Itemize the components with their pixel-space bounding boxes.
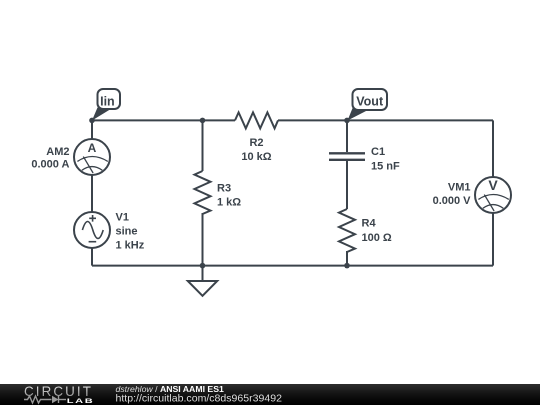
- footer bar: [0, 384, 540, 405]
- label R3: [217, 183, 241, 209]
- wire ground stub: [202, 266, 204, 281]
- junction node R3 top: [200, 118, 206, 124]
- svg-text:Iin: Iin: [100, 94, 115, 108]
- svg-text:0.000 A: 0.000 A: [31, 159, 69, 171]
- wire top left: [92, 119, 235, 121]
- svg-text:V: V: [488, 177, 498, 193]
- junction node Vout: [344, 118, 350, 124]
- node Iin flag: [92, 89, 120, 121]
- junction node R4 bottom: [344, 263, 350, 269]
- svg-text:1 kΩ: 1 kΩ: [217, 197, 241, 209]
- node Vout flag: [348, 89, 388, 121]
- capacitor C1: [329, 153, 365, 160]
- svg-text:10 kΩ: 10 kΩ: [241, 151, 271, 163]
- svg-text:100 Ω: 100 Ω: [362, 232, 392, 244]
- wire C1 top: [346, 120, 348, 152]
- svg-text:R3: R3: [217, 183, 231, 195]
- label AM2: [31, 146, 69, 171]
- wire left lower: [91, 248, 93, 266]
- resistor R2: [235, 112, 278, 128]
- label R4: [362, 218, 392, 244]
- wire bottom: [92, 265, 493, 267]
- svg-text:AM2: AM2: [46, 146, 69, 158]
- wire left middle: [91, 175, 93, 212]
- label C1: [371, 146, 400, 173]
- label V1: [116, 212, 145, 252]
- junction node left: [89, 118, 95, 124]
- svg-text:1 kHz: 1 kHz: [116, 240, 145, 252]
- wire top right: [278, 119, 493, 121]
- svg-text:15 nF: 15 nF: [371, 161, 400, 173]
- label VM1: [433, 182, 472, 208]
- wire R3 bottom: [202, 213, 204, 266]
- svg-text:VM1: VM1: [448, 182, 471, 194]
- svg-text:sine: sine: [116, 226, 138, 238]
- wire right upper: [492, 120, 494, 177]
- logo resistor-diode glyph: [24, 396, 66, 403]
- svg-text:C1: C1: [371, 146, 385, 158]
- resistor R4: [339, 209, 355, 252]
- svg-text:R2: R2: [249, 137, 263, 149]
- wire right lower: [492, 213, 494, 266]
- svg-text:http://circuitlab.com/c8ds965r: http://circuitlab.com/c8ds965r39492: [116, 393, 283, 405]
- junction node ground: [200, 263, 206, 269]
- label R2: [241, 137, 271, 163]
- svg-text:0.000 V: 0.000 V: [433, 195, 472, 207]
- wire R3 top: [202, 120, 204, 171]
- source V1: [74, 212, 110, 248]
- svg-text:R4: R4: [362, 218, 377, 230]
- svg-text:V1: V1: [116, 212, 129, 224]
- wire R4 bottom: [346, 251, 348, 266]
- ammeter AM2: [74, 139, 110, 175]
- resistor R3: [195, 171, 211, 214]
- ground: [188, 281, 217, 296]
- voltmeter VM1: [475, 177, 511, 213]
- wire C1-R4: [346, 161, 348, 209]
- svg-text:Vout: Vout: [356, 95, 384, 109]
- svg-text:LAB: LAB: [67, 397, 94, 404]
- wire left upper: [91, 120, 93, 139]
- svg-text:A: A: [88, 141, 97, 155]
